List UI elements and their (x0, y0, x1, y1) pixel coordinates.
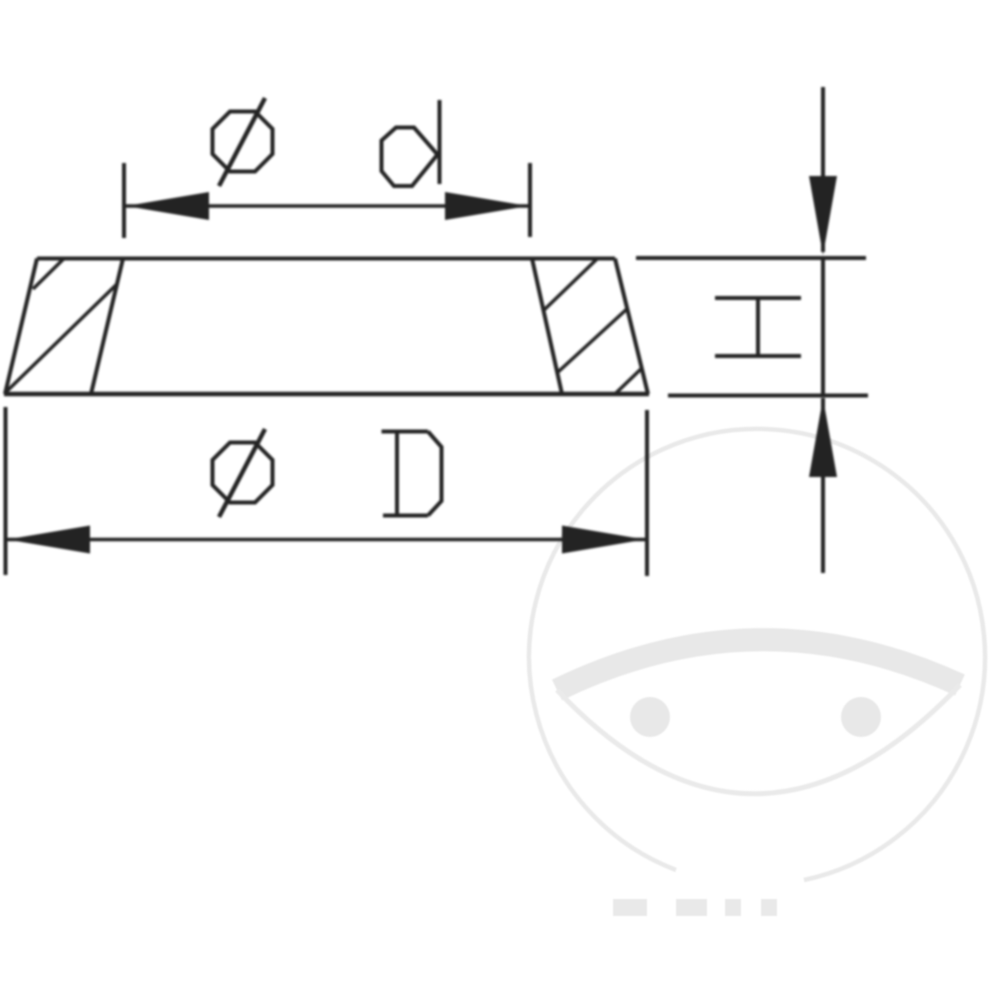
dim d letter d stem (438, 100, 442, 184)
washer section left outer slant (5, 259, 37, 395)
watermark left eye (630, 697, 670, 737)
dim H middle dimension line (821, 258, 825, 394)
dim D right extension line (645, 410, 649, 576)
dim d dimension line (126, 204, 528, 208)
washer section bottom edge (4, 392, 649, 397)
dim D diameter symbol octagon (213, 443, 273, 503)
dim d letter d bowl (382, 128, 438, 187)
washer section right outer slant (615, 259, 648, 395)
dim D letter D bowl (428, 432, 442, 516)
dim H top extension line (636, 256, 866, 260)
right end hatch line 3 (616, 368, 642, 393)
dim H letter H crossbar (756, 298, 760, 356)
dim d diameter symbol octagon (213, 112, 273, 172)
dim D diameter symbol slash (219, 429, 265, 517)
left end hatch line 1 (33, 259, 64, 290)
dim D right arrowhead (562, 526, 645, 554)
dim D left extension line (4, 407, 8, 575)
watermark MU letter tops (613, 899, 777, 916)
watermark visor band (557, 640, 960, 690)
right end hatch line 2 (558, 308, 628, 372)
dim H down arrowhead (809, 176, 837, 255)
dim d left extension line (122, 163, 126, 238)
watermark helmet circle (529, 429, 985, 880)
dim D dimension line (7, 538, 645, 542)
washer section left inner slant (91, 259, 123, 395)
dim d right arrowhead (445, 192, 528, 220)
dim H letter H top bar (715, 296, 801, 300)
left end hatch line 2 (6, 284, 117, 392)
watermark visor lower edge (557, 685, 960, 794)
dim D letter D stem (395, 432, 399, 516)
dim H upper dimension line (821, 87, 825, 252)
dim D letter D bottom bar (383, 514, 428, 518)
dim d right extension line (528, 163, 532, 237)
dim H bottom extension line (668, 394, 868, 398)
dim d left arrowhead (126, 192, 209, 220)
watermark right eye (841, 697, 881, 737)
dim D left arrowhead (7, 526, 90, 554)
right end hatch line 1 (544, 259, 597, 310)
dim H up arrowhead (809, 398, 837, 477)
dim d diameter symbol slash (219, 98, 265, 186)
washer section top edge (37, 257, 615, 261)
dim D letter D top bar (382, 430, 429, 434)
washer section right inner slant (532, 259, 562, 395)
dim H letter H bottom bar (715, 354, 801, 358)
dim H lower dimension line (821, 398, 825, 573)
